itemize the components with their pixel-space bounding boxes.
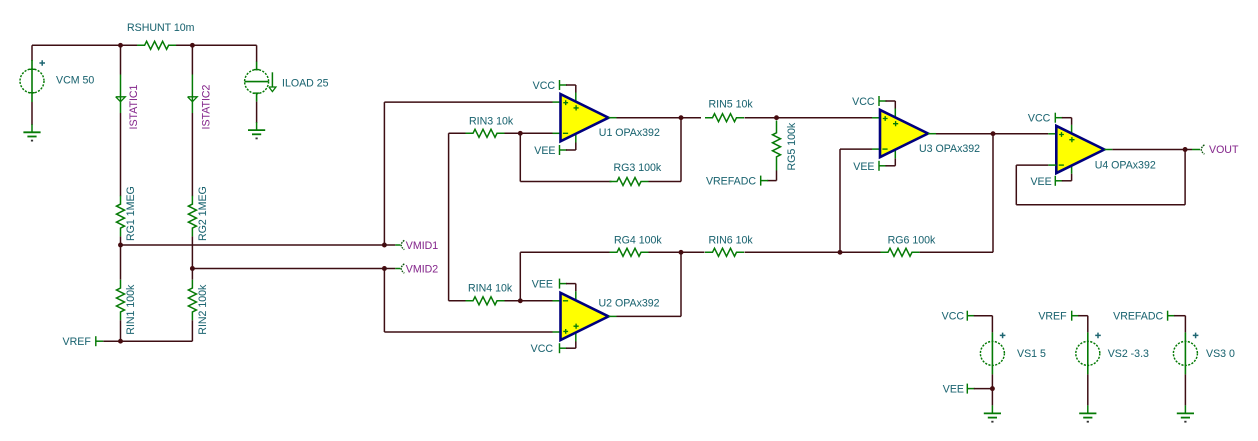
ground below VS1 bbox=[991, 405, 993, 413]
ground below ILOAD bbox=[256, 122, 258, 130]
svg-text:VREF: VREF bbox=[1038, 311, 1067, 323]
wire RIN5 to U3 +input bbox=[745, 117, 873, 119]
op-amp U4 OPAx392 bbox=[1056, 126, 1104, 173]
svg-text:VREFADC: VREFADC bbox=[706, 176, 756, 188]
svg-text:RG1 1MEG: RG1 1MEG bbox=[125, 186, 137, 241]
wire VMID2 horizontal bbox=[192, 268, 384, 270]
node junction VOUT bbox=[1183, 147, 1188, 152]
voltage source VS2 -3.3 bbox=[1076, 341, 1100, 365]
svg-text:RG2 1MEG: RG2 1MEG bbox=[197, 186, 209, 241]
wire RIN4 to U2 -input bbox=[505, 300, 553, 302]
svg-text:VCC: VCC bbox=[531, 343, 554, 355]
svg-text:VCC: VCC bbox=[533, 80, 556, 92]
svg-text:ISTATIC1: ISTATIC1 bbox=[128, 84, 140, 129]
wire RG6 to U3 output bbox=[920, 251, 993, 253]
wire branch2 to RIN2 bbox=[191, 269, 193, 280]
power tag VREFADC bbox=[760, 176, 762, 186]
node junction RG4-RIN6 bbox=[679, 250, 684, 255]
node junction RSHUNT right bbox=[190, 43, 195, 48]
resistor RIN5 10k bbox=[705, 114, 744, 122]
svg-text:VCC: VCC bbox=[852, 96, 875, 108]
wire VMID1 riser to U1 +input bbox=[383, 102, 385, 245]
wire VCC to U1 bbox=[566, 84, 576, 86]
wire VMID1 horizontal bbox=[121, 244, 385, 246]
svg-text:VEE: VEE bbox=[853, 161, 874, 173]
svg-text:VCM 50: VCM 50 bbox=[56, 75, 94, 87]
resistor RG5 100k bbox=[773, 121, 781, 171]
svg-text:VREFADC: VREFADC bbox=[1113, 311, 1163, 323]
resistor RG4 100k bbox=[610, 248, 649, 256]
wire VCC to U4 bbox=[1062, 117, 1072, 119]
svg-text:VS2 -3.3: VS2 -3.3 bbox=[1108, 348, 1149, 360]
wire VCC to VS1 bbox=[974, 315, 993, 317]
wire RG4 to U2 output riser bbox=[649, 251, 705, 253]
wire VREF rail bbox=[103, 340, 192, 342]
wire RG3 to U1 output bbox=[649, 181, 682, 183]
voltage source VS1 5 bbox=[980, 341, 1004, 365]
pin stub U3 -input bbox=[872, 148, 880, 150]
wire VREF to VS2 bbox=[1078, 315, 1088, 317]
wire VS2 to ground bbox=[1087, 374, 1089, 405]
wire ILOAD top lead bbox=[256, 45, 258, 62]
svg-text:RG4 100k: RG4 100k bbox=[614, 234, 662, 246]
wire feedback U1 riser bbox=[519, 133, 521, 181]
wire RG riser joining RIN3-RIN4 bbox=[448, 133, 450, 300]
node junction VMID2 left bbox=[190, 266, 195, 271]
wire VREFADC to VS3 bbox=[1174, 315, 1185, 317]
wire U3 output to U4 bbox=[936, 133, 1048, 135]
node junction U1 feedback bbox=[518, 131, 523, 136]
svg-text:VEE: VEE bbox=[1030, 176, 1051, 188]
node junction RSHUNT left bbox=[118, 43, 123, 48]
wire VS3 to ground bbox=[1184, 374, 1186, 405]
svg-text:VMID2: VMID2 bbox=[406, 264, 438, 276]
svg-text:U3 OPAx392: U3 OPAx392 bbox=[919, 143, 980, 155]
svg-text:VREF: VREF bbox=[63, 336, 92, 348]
node tag VOUT bbox=[1185, 149, 1192, 151]
svg-text:VCC: VCC bbox=[942, 311, 965, 323]
ground below VS3 bbox=[1184, 405, 1186, 413]
resistor RG2 1MEG bbox=[188, 196, 196, 237]
wire branch2 to RG2 bbox=[191, 113, 193, 196]
pin stub U1 -input bbox=[553, 132, 561, 134]
voltage source VCM 50 bbox=[31, 45, 33, 61]
resistor RIN1 100k bbox=[117, 280, 125, 321]
wire RIN6 to RG6 bbox=[745, 251, 882, 253]
wire branch1 to RIN1 bbox=[120, 245, 122, 280]
pin stub U4 -input bbox=[1048, 164, 1056, 166]
svg-text:VS3 0: VS3 0 bbox=[1206, 348, 1235, 360]
node junction U1 output bbox=[679, 115, 684, 120]
resistor RIN6 10k bbox=[705, 248, 744, 256]
svg-text:ISTATIC2: ISTATIC2 bbox=[201, 84, 213, 129]
wire VEE to U4 bbox=[1062, 180, 1072, 182]
ground below VS2 bbox=[1087, 405, 1089, 413]
pin stub U2 output bbox=[609, 315, 617, 317]
node junction VREF-RIN1 bbox=[118, 339, 123, 344]
wire U2 output riser bbox=[680, 252, 682, 316]
svg-text:VEE: VEE bbox=[534, 145, 555, 157]
node junction RG5 top bbox=[774, 115, 779, 120]
pin stub U2 -input bbox=[553, 300, 561, 302]
node tag VMID2 bbox=[384, 268, 395, 270]
node junction U3 -input riser bbox=[838, 250, 843, 255]
svg-text:RIN1 100k: RIN1 100k bbox=[125, 284, 137, 335]
wire ILOAD to ground bbox=[256, 102, 258, 123]
pin stub U2 +input bbox=[553, 331, 561, 333]
current source ILOAD 25 bbox=[245, 70, 269, 94]
wire U4 feedback loop bbox=[1016, 164, 1048, 166]
pin stub U3 output bbox=[928, 133, 936, 135]
wire U3 -input riser bbox=[839, 149, 841, 252]
svg-text:RIN6 10k: RIN6 10k bbox=[709, 234, 754, 246]
wire VS1 to VEE node bbox=[991, 374, 993, 405]
svg-text:RSHUNT 10m: RSHUNT 10m bbox=[127, 22, 195, 34]
op-amp U2 OPAx392 bbox=[561, 293, 609, 340]
pin stub U4 +input bbox=[1048, 133, 1056, 135]
wire VCC to U2 bbox=[566, 347, 576, 349]
wire VEE to U1 bbox=[566, 149, 576, 151]
wire branch1 from rail bbox=[120, 45, 122, 74]
ground below VCM bbox=[31, 124, 33, 132]
svg-text:RIN5 10k: RIN5 10k bbox=[709, 99, 754, 111]
wire VMID2 riser to U2 +input bbox=[383, 269, 385, 333]
svg-text:U4 OPAx392: U4 OPAx392 bbox=[1095, 159, 1156, 171]
svg-text:RIN3 10k: RIN3 10k bbox=[469, 115, 514, 127]
node junction VMID1 left bbox=[118, 243, 123, 248]
wire U4 output bbox=[1112, 149, 1185, 151]
svg-text:U1 OPAx392: U1 OPAx392 bbox=[599, 127, 660, 139]
wire branch1 to RG1 bbox=[120, 113, 122, 196]
wire RG1 to VMID1 node bbox=[120, 236, 122, 245]
wire VCC to U3 bbox=[886, 100, 896, 102]
resistor RIN2 100k bbox=[188, 280, 196, 321]
wire RIN4 left lead bbox=[449, 300, 466, 302]
wire RG5 to VREFADC tag bbox=[776, 171, 778, 181]
svg-text:RG6 100k: RG6 100k bbox=[888, 234, 936, 246]
node junction U3 output bbox=[991, 131, 996, 136]
voltage source VS3 0 bbox=[1173, 341, 1197, 365]
wire U1 output to RIN5 bbox=[617, 117, 702, 119]
svg-text:VEE: VEE bbox=[532, 279, 553, 291]
node junction VEE bbox=[990, 386, 995, 391]
pin stub U4 output bbox=[1104, 149, 1112, 151]
wire VEE to U2 bbox=[566, 283, 576, 285]
wire RIN1 to VREF rail bbox=[120, 320, 122, 341]
node junction U2 feedback bbox=[518, 298, 523, 303]
resistor RIN3 10k bbox=[466, 129, 505, 137]
svg-text:VOUT: VOUT bbox=[1209, 144, 1239, 156]
node tag VMID1 bbox=[384, 244, 395, 246]
wire VCM to ground bbox=[31, 102, 33, 125]
node junction VMID2 tag bbox=[382, 266, 387, 271]
svg-text:VMID1: VMID1 bbox=[406, 240, 438, 252]
svg-text:RIN4 10k: RIN4 10k bbox=[468, 282, 513, 294]
wire RG2 to VMID2 node bbox=[191, 236, 193, 268]
pin stub U1 output bbox=[609, 117, 617, 119]
resistor RG3 100k bbox=[610, 178, 649, 186]
node junction VMID1 tag bbox=[382, 243, 387, 248]
svg-text:VCC: VCC bbox=[1028, 113, 1051, 125]
svg-text:U2 OPAx392: U2 OPAx392 bbox=[599, 298, 660, 310]
wire RIN2 to VREF rail bbox=[191, 320, 193, 341]
op-amp U1 OPAx392 bbox=[561, 94, 609, 141]
svg-text:RG5 100k: RG5 100k bbox=[786, 122, 798, 170]
svg-text:VS1 5: VS1 5 bbox=[1017, 348, 1046, 360]
op-amp U3 OPAx392 bbox=[880, 110, 928, 157]
svg-text:RIN2 100k: RIN2 100k bbox=[197, 284, 209, 335]
wire VEE to U3 bbox=[886, 165, 896, 167]
ammeter arrow ISTATIC1 bbox=[120, 75, 122, 114]
resistor RSHUNT 10m bbox=[137, 41, 176, 49]
svg-text:VEE: VEE bbox=[943, 384, 964, 396]
wire feedback U2 riser bbox=[519, 252, 521, 300]
svg-text:ILOAD 25: ILOAD 25 bbox=[282, 78, 329, 90]
resistor RG6 100k bbox=[881, 248, 920, 256]
wire RIN3 left lead bbox=[449, 132, 466, 134]
wire RIN3 to U1 -input bbox=[505, 132, 553, 134]
ammeter arrow ISTATIC2 bbox=[191, 75, 193, 114]
pin stub U3 +input bbox=[872, 117, 880, 119]
wire branch2 from rail bbox=[191, 45, 193, 74]
resistor RG1 1MEG bbox=[117, 196, 125, 237]
resistor RIN4 10k bbox=[466, 297, 505, 305]
svg-text:RG3 100k: RG3 100k bbox=[614, 162, 662, 174]
wire top rail from VCM to RSHUNT and ILOAD bbox=[32, 44, 137, 46]
pin stub U1 +input bbox=[553, 101, 561, 103]
